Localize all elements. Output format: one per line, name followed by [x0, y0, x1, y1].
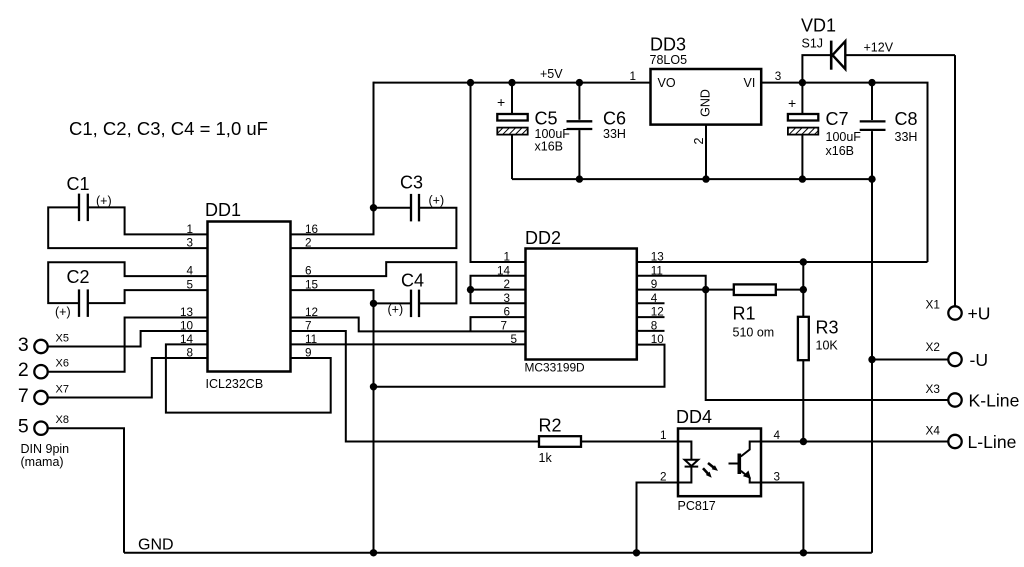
svg-text:X5: X5 [56, 333, 69, 345]
capacitor C5 [497, 83, 570, 180]
svg-text:3: 3 [775, 70, 782, 83]
wire DD2 pin8 stub [637, 330, 665, 332]
svg-text:x16B: x16B [826, 144, 855, 158]
DD4 phototransistor [729, 442, 762, 483]
wire DD2 pin4 stub [637, 302, 665, 304]
svg-text:(+): (+) [96, 194, 112, 208]
svg-text:MC33199D: MC33199D [525, 361, 586, 375]
svg-text:VD1: VD1 [801, 16, 836, 36]
svg-text:GND: GND [138, 537, 174, 554]
svg-text:(+): (+) [55, 305, 71, 319]
connector X2 -U [926, 340, 989, 370]
svg-text:X2: X2 [926, 340, 940, 354]
resistor R1 510om [733, 284, 804, 339]
svg-text:7: 7 [18, 385, 29, 407]
svg-text:DD3: DD3 [650, 35, 686, 55]
IC DD1 ICL232CB [180, 200, 319, 391]
capacitor C3 [291, 82, 457, 249]
wire DD4 pin3 drop [761, 483, 803, 553]
wire DD2 pin10 return [374, 345, 665, 387]
svg-text:1: 1 [629, 70, 636, 83]
capacitor C4 [291, 262, 457, 317]
svg-text:5: 5 [18, 416, 29, 438]
svg-text:C5: C5 [535, 109, 558, 129]
junction VI rail / C8 [868, 79, 875, 86]
svg-text:+: + [788, 95, 796, 111]
svg-text:2: 2 [18, 359, 29, 381]
capacitor C1 [48, 174, 207, 248]
wire X6 to DD1 pin13 [48, 318, 208, 372]
svg-text:X1: X1 [926, 298, 940, 312]
wire DD2 pin1 riser [471, 83, 526, 262]
wire DD4 pin4 to L-Line [761, 441, 948, 443]
junction L-Line / R3 bottom [800, 438, 807, 445]
wire DD1 pin14-pin9 loop [166, 344, 331, 412]
wire DD2 pin12 stub [637, 316, 665, 318]
capacitor C8 [860, 83, 918, 180]
svg-text:ICL232CB: ICL232CB [206, 377, 264, 391]
wire DD2 pin13 row [637, 261, 928, 263]
connector X1 +U [926, 298, 991, 324]
wire DD2 pin6 drop [471, 317, 526, 331]
svg-text:C3: C3 [400, 173, 423, 193]
junction mid GND rail / DD3 pin2 [702, 175, 709, 182]
svg-text:C2: C2 [67, 267, 90, 287]
junction bottom rail / DD4 pin2 [633, 549, 640, 556]
diode VD1 S1J [801, 16, 955, 83]
junction mid GND rail / C8 column [868, 175, 875, 182]
wire +5V rail [374, 82, 651, 84]
svg-text:C1, C2, C3, C4 = 1,0 uF: C1, C2, C3, C4 = 1,0 uF [69, 118, 268, 139]
svg-text:33H: 33H [603, 127, 626, 141]
junction pin13 row / R3 column [800, 258, 807, 265]
junction DD2 pin10 return / GND column [370, 383, 377, 390]
wire DD2 pins 14-2-3 bracket [471, 276, 526, 304]
svg-text:2: 2 [692, 137, 706, 144]
svg-text:S1J: S1J [802, 37, 824, 51]
wire X7 to DD1 pin8 [48, 358, 208, 398]
svg-text:L-Line: L-Line [968, 432, 1017, 452]
capacitor C7 [788, 83, 861, 180]
connector X6 [18, 358, 69, 382]
svg-text:R3: R3 [816, 318, 839, 338]
svg-text:C1: C1 [67, 174, 90, 194]
wire X2 branch [872, 359, 948, 361]
svg-text:1k: 1k [539, 451, 553, 465]
svg-text:33H: 33H [895, 130, 918, 144]
junction VI rail / VD1 / C7 [799, 79, 806, 86]
connector X8 [18, 414, 69, 438]
wire DD2 pins 11-9 junction to R1 and K-Line [637, 276, 949, 400]
wire X5 to DD1 pin10 [48, 331, 208, 347]
svg-text:3: 3 [18, 334, 29, 356]
svg-text:510 om: 510 om [733, 326, 775, 340]
junction +5V rail / C5 [508, 79, 515, 86]
junction R1 right / R3 column [800, 286, 807, 293]
DD4 internal LED [678, 442, 698, 483]
svg-text:C7: C7 [826, 109, 849, 129]
connector X4 L-Line [926, 424, 1017, 453]
wire +12V drop to X1 [954, 55, 956, 306]
connector X3 K-Line [926, 382, 1020, 411]
wire C2 leads [48, 262, 207, 303]
IC DD3 78LO5 regulator [629, 35, 781, 145]
svg-text:100uF: 100uF [826, 130, 862, 144]
svg-text:R2: R2 [539, 416, 562, 436]
svg-text:X6: X6 [56, 358, 69, 370]
svg-text:DIN 9pin: DIN 9pin [21, 442, 70, 456]
junction DD2 pins 11-9 / R1 / K-Line [702, 286, 709, 293]
svg-text:R1: R1 [733, 304, 756, 324]
junction right GND column / X2 [868, 356, 875, 363]
svg-text:-U: -U [970, 350, 989, 370]
resistor R3 10K [798, 262, 839, 442]
capacitor C2 [48, 262, 207, 319]
svg-text:GND: GND [699, 89, 713, 117]
wire GND bottom rail [124, 552, 872, 554]
svg-text:78LO5: 78LO5 [650, 53, 688, 67]
svg-text:+U: +U [968, 304, 991, 324]
svg-text:X8: X8 [56, 414, 69, 426]
svg-text:+: + [497, 94, 505, 110]
svg-text:DD4: DD4 [676, 407, 712, 427]
wire DD3 pin2 drop [705, 125, 707, 180]
junction C4 left / GND column [370, 300, 377, 307]
svg-text:C6: C6 [603, 109, 626, 129]
wire C4 leads [291, 262, 457, 303]
svg-text:1: 1 [660, 429, 667, 442]
junction C3 left / pin16 riser [370, 204, 377, 211]
wire DD1 pin15 GND column [291, 290, 374, 553]
DD4 light arrows [703, 463, 718, 478]
wire C3 leads / pin16 riser [291, 82, 374, 235]
svg-text:+12V: +12V [864, 41, 894, 55]
svg-text:C8: C8 [895, 109, 918, 129]
junction +5V rail / C6 [576, 79, 583, 86]
wire GND column right [871, 179, 873, 553]
resistor R2 1k [539, 416, 679, 466]
wire X8 to GND rail [48, 428, 124, 553]
svg-text:(+): (+) [429, 194, 445, 208]
capacitor C6 [567, 83, 627, 180]
wire C1 leads [48, 207, 207, 248]
junction mid GND rail / C7 [799, 175, 806, 182]
svg-text:X7: X7 [56, 384, 69, 396]
wire DD1 pin11 to DD2 pin5 [291, 343, 526, 345]
svg-text:PC817: PC817 [678, 499, 716, 513]
svg-text:C4: C4 [401, 271, 424, 291]
svg-text:4: 4 [774, 429, 781, 442]
svg-text:DD1: DD1 [205, 200, 241, 220]
svg-text:X3: X3 [926, 382, 941, 396]
junction mid GND rail / C6 [576, 175, 583, 182]
wire mid GND rail [512, 178, 872, 180]
junction +5V rail / DD2 pin1 riser [467, 79, 474, 86]
svg-text:(mama): (mama) [21, 455, 64, 469]
junction DD2 pins 14-2-3 [467, 286, 474, 293]
connector X5 [18, 333, 69, 357]
svg-text:(+): (+) [388, 303, 404, 317]
svg-text:10K: 10K [816, 339, 839, 353]
svg-text:K-Line: K-Line [969, 391, 1020, 411]
svg-text:VO: VO [658, 76, 676, 90]
wire DD1 pin12 to DD2 pin7 [291, 318, 526, 332]
connector X7 [18, 384, 69, 408]
svg-text:VI: VI [744, 76, 756, 90]
junction bottom rail / GND column [370, 549, 377, 556]
svg-text:DD2: DD2 [525, 228, 561, 248]
wire DD4 pin2 drop [637, 483, 679, 553]
IC DD4 PC817 optocoupler [660, 407, 781, 513]
svg-text:x16B: x16B [535, 140, 564, 154]
svg-text:+5V: +5V [540, 67, 563, 81]
wire VI rail to corner [761, 83, 927, 262]
junction bottom rail / DD4 pin3 [800, 549, 807, 556]
IC DD2 MC33199D [497, 228, 664, 375]
wire DD1 pin7 to R2 row [291, 331, 540, 442]
svg-text:X4: X4 [926, 424, 941, 438]
